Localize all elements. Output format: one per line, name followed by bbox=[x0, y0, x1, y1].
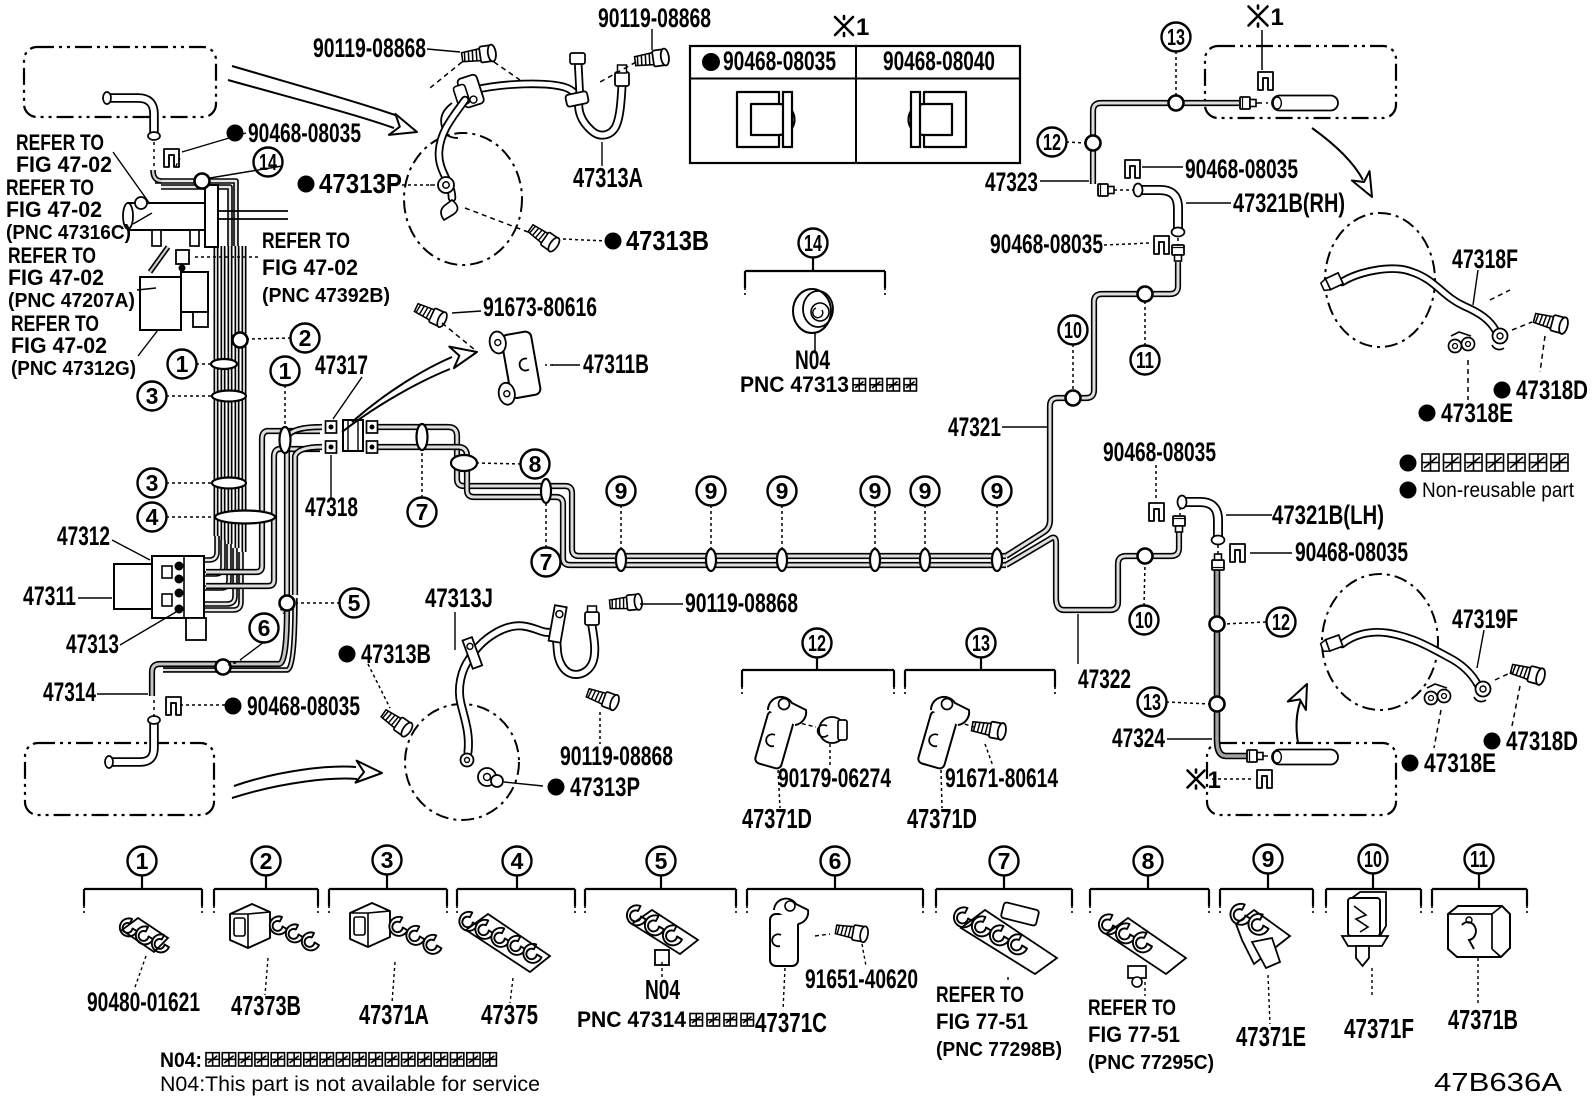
svg-text:47313: 47313 bbox=[66, 629, 119, 659]
svg-text:47322: 47322 bbox=[1078, 664, 1131, 694]
svg-text:7: 7 bbox=[998, 848, 1011, 874]
svg-text:90468-08035: 90468-08035 bbox=[248, 118, 361, 148]
svg-text:90480-01621: 90480-01621 bbox=[87, 987, 200, 1017]
svg-text:14: 14 bbox=[259, 149, 277, 175]
svg-text:47323: 47323 bbox=[985, 167, 1038, 197]
svg-text:47371A: 47371A bbox=[359, 999, 429, 1030]
svg-text:90468-08035: 90468-08035 bbox=[990, 229, 1103, 259]
svg-text:47319F: 47319F bbox=[1452, 604, 1518, 634]
svg-text:PNC 47314: PNC 47314 bbox=[577, 1007, 686, 1032]
svg-text:9: 9 bbox=[776, 478, 789, 504]
svg-text:9: 9 bbox=[1262, 846, 1275, 872]
svg-text:(PNC 47316C): (PNC 47316C) bbox=[6, 222, 131, 244]
svg-text:FIG 47-02: FIG 47-02 bbox=[6, 197, 102, 222]
svg-text:90468-08040: 90468-08040 bbox=[883, 46, 995, 76]
svg-text:47371D: 47371D bbox=[907, 803, 977, 834]
svg-text:47375: 47375 bbox=[481, 999, 538, 1030]
svg-text:(PNC 77295C): (PNC 77295C) bbox=[1088, 1052, 1214, 1074]
svg-text:11: 11 bbox=[1136, 347, 1154, 373]
svg-text:5: 5 bbox=[655, 848, 668, 874]
svg-text:4: 4 bbox=[511, 848, 524, 874]
svg-text:(PNC 47392B): (PNC 47392B) bbox=[262, 285, 390, 307]
svg-text:90119-08868: 90119-08868 bbox=[598, 3, 711, 33]
svg-text:(PNC 77298B): (PNC 77298B) bbox=[936, 1039, 1062, 1061]
svg-text:90468-08035: 90468-08035 bbox=[723, 46, 836, 76]
svg-text:N04: N04 bbox=[645, 974, 680, 1005]
svg-text:1: 1 bbox=[1271, 4, 1284, 31]
svg-text:47313J: 47313J bbox=[425, 583, 493, 613]
svg-text:N04:This part is not available: N04:This part is not available for servi… bbox=[160, 1073, 540, 1096]
svg-text:3: 3 bbox=[146, 470, 159, 496]
svg-text:12: 12 bbox=[808, 630, 826, 656]
svg-text:47318D: 47318D bbox=[1506, 726, 1578, 756]
svg-text:47321B(RH): 47321B(RH) bbox=[1233, 188, 1345, 218]
svg-text:FIG 77-51: FIG 77-51 bbox=[1088, 1022, 1180, 1047]
svg-text:FIG 47-02: FIG 47-02 bbox=[8, 265, 104, 290]
svg-text:47373B: 47373B bbox=[231, 990, 301, 1021]
svg-text:47314: 47314 bbox=[43, 677, 96, 707]
svg-text:14: 14 bbox=[804, 230, 822, 256]
svg-text:6: 6 bbox=[258, 615, 271, 641]
svg-text:47371F: 47371F bbox=[1344, 1013, 1414, 1044]
svg-text:8: 8 bbox=[1142, 848, 1155, 874]
svg-text:9: 9 bbox=[991, 478, 1004, 504]
svg-text:47313P: 47313P bbox=[319, 168, 402, 199]
svg-text:47318: 47318 bbox=[305, 492, 358, 522]
svg-text:47371D: 47371D bbox=[742, 803, 812, 834]
svg-text:1: 1 bbox=[176, 351, 189, 377]
svg-text:47371C: 47371C bbox=[755, 1007, 827, 1038]
svg-text:47371B: 47371B bbox=[1448, 1004, 1518, 1035]
svg-text:REFER TO: REFER TO bbox=[262, 228, 350, 253]
svg-text:90468-08035: 90468-08035 bbox=[1295, 537, 1408, 567]
svg-text:(PNC 47312G): (PNC 47312G) bbox=[11, 358, 136, 380]
svg-text:8: 8 bbox=[529, 451, 542, 477]
svg-text:47313A: 47313A bbox=[573, 162, 643, 193]
svg-text:90119-08868: 90119-08868 bbox=[560, 741, 673, 771]
svg-text:FIG 47-02: FIG 47-02 bbox=[16, 152, 112, 177]
svg-text:10: 10 bbox=[1064, 317, 1082, 343]
svg-text:13: 13 bbox=[1167, 24, 1185, 50]
svg-text:47321: 47321 bbox=[948, 412, 1001, 442]
svg-text:REFER TO: REFER TO bbox=[1088, 995, 1176, 1020]
svg-text:REFER TO: REFER TO bbox=[936, 982, 1024, 1007]
svg-text:7: 7 bbox=[416, 499, 429, 525]
svg-text:91671-80614: 91671-80614 bbox=[945, 763, 1058, 793]
svg-text:N04:: N04: bbox=[160, 1049, 202, 1072]
svg-text:6: 6 bbox=[829, 848, 842, 874]
svg-text:9: 9 bbox=[705, 478, 718, 504]
svg-text:90468-08035: 90468-08035 bbox=[1185, 154, 1298, 184]
svg-text:9: 9 bbox=[919, 478, 932, 504]
svg-text:13: 13 bbox=[972, 630, 990, 656]
svg-text:12: 12 bbox=[1272, 609, 1290, 635]
svg-text:1: 1 bbox=[279, 358, 292, 384]
svg-text:10: 10 bbox=[1135, 607, 1153, 633]
svg-text:91651-40620: 91651-40620 bbox=[805, 964, 918, 994]
svg-text:47313P: 47313P bbox=[570, 772, 640, 802]
svg-text:90468-08035: 90468-08035 bbox=[1103, 437, 1216, 467]
svg-text:4: 4 bbox=[146, 504, 159, 530]
svg-text:1: 1 bbox=[136, 848, 149, 874]
svg-text:11: 11 bbox=[1470, 846, 1488, 872]
svg-text:FIG 77-51: FIG 77-51 bbox=[936, 1009, 1028, 1034]
svg-text:(PNC 47207A): (PNC 47207A) bbox=[8, 290, 135, 312]
svg-text:5: 5 bbox=[348, 590, 361, 616]
svg-text:47312: 47312 bbox=[57, 521, 110, 551]
svg-text:47371E: 47371E bbox=[1236, 1021, 1306, 1052]
svg-text:10: 10 bbox=[1364, 846, 1382, 872]
svg-text:47311: 47311 bbox=[23, 581, 76, 611]
svg-text:N04: N04 bbox=[795, 345, 830, 375]
svg-text:47318D: 47318D bbox=[1516, 375, 1588, 405]
svg-text:90179-06274: 90179-06274 bbox=[778, 763, 891, 793]
svg-text:2: 2 bbox=[260, 848, 273, 874]
svg-text:47317: 47317 bbox=[315, 350, 368, 380]
svg-text:2: 2 bbox=[299, 325, 312, 351]
svg-text:3: 3 bbox=[146, 383, 159, 409]
svg-text:3: 3 bbox=[381, 847, 394, 873]
svg-text:1: 1 bbox=[1208, 767, 1221, 794]
svg-text:9: 9 bbox=[869, 478, 882, 504]
svg-text:7: 7 bbox=[540, 549, 553, 575]
svg-text:47311B: 47311B bbox=[583, 349, 649, 379]
svg-text:12: 12 bbox=[1043, 129, 1061, 155]
svg-text:90119-08868: 90119-08868 bbox=[685, 588, 798, 618]
svg-text:Non-reusable part: Non-reusable part bbox=[1422, 479, 1574, 502]
svg-text:90468-08035: 90468-08035 bbox=[247, 691, 360, 721]
svg-text:90119-08868: 90119-08868 bbox=[313, 33, 426, 63]
svg-text:9: 9 bbox=[615, 478, 628, 504]
svg-text:47318E: 47318E bbox=[1424, 748, 1496, 778]
svg-text:91673-80616: 91673-80616 bbox=[483, 292, 597, 322]
svg-text:47318E: 47318E bbox=[1441, 398, 1513, 428]
svg-text:PNC 47313: PNC 47313 bbox=[740, 372, 849, 397]
svg-text:47313B: 47313B bbox=[361, 639, 431, 669]
svg-text:47324: 47324 bbox=[1112, 723, 1165, 753]
svg-text:47B636A: 47B636A bbox=[1434, 1067, 1563, 1097]
svg-text:1: 1 bbox=[856, 14, 869, 41]
svg-text:FIG 47-02: FIG 47-02 bbox=[262, 255, 358, 280]
svg-text:13: 13 bbox=[1143, 689, 1161, 715]
svg-text:47318F: 47318F bbox=[1452, 244, 1518, 274]
svg-text:FIG 47-02: FIG 47-02 bbox=[11, 333, 107, 358]
svg-text:47313B: 47313B bbox=[626, 225, 709, 256]
svg-text:47321B(LH): 47321B(LH) bbox=[1272, 500, 1384, 530]
